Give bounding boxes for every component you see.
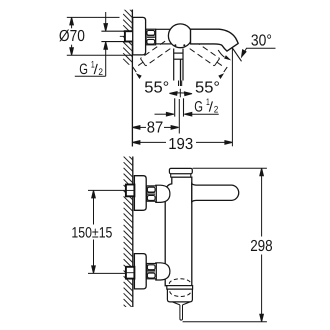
handle swing double arrow xyxy=(170,89,193,98)
top pipe centreline / 150 ext xyxy=(88,189,126,191)
top olive (union cone, upper) xyxy=(156,185,170,202)
G 1/2 pointer arrows (plan right) xyxy=(155,112,219,116)
dim Ø70 arrows xyxy=(70,17,74,55)
wall (side) xyxy=(132,157,134,308)
bottom outlet G1/2 lines (plan) xyxy=(175,98,184,116)
dashed internal arc (upper) xyxy=(169,279,191,284)
55° ray right end tick xyxy=(224,67,227,72)
55° ray left end tick xyxy=(133,67,136,72)
55° ray right mid tick xyxy=(214,59,219,66)
neck cylinder (plan) xyxy=(156,29,172,44)
svg-text:55°: 55° xyxy=(195,79,220,96)
dim 150±15 xyxy=(92,190,96,273)
dim 298 xyxy=(260,168,264,321)
dashed internal arc (lower) xyxy=(170,291,191,296)
inlet pipe centerline (plan) xyxy=(120,35,138,37)
top escutcheon (side) xyxy=(134,176,146,211)
bottom pipe in wall (side) xyxy=(126,267,134,279)
298 top extension line xyxy=(193,167,267,169)
svg-text:/: / xyxy=(94,61,98,77)
30° leader xyxy=(242,48,276,57)
svg-text:/: / xyxy=(209,99,213,115)
svg-text:30°: 30° xyxy=(251,32,272,49)
dim 193 xyxy=(132,141,232,145)
hex nut (plan) xyxy=(146,29,156,45)
inlet pipe in wall (plan) xyxy=(125,31,134,41)
G 1/2 label (upper-left) xyxy=(79,59,103,78)
svg-text:298: 298 xyxy=(250,238,273,255)
top hex nut (side) xyxy=(147,186,157,201)
lever stem (plan) xyxy=(180,59,182,86)
dim Ø70 extension lines xyxy=(67,16,120,18)
svg-text:G: G xyxy=(79,61,88,78)
outlet centre line xyxy=(178,99,180,134)
svg-text:150±15: 150±15 xyxy=(71,224,112,241)
55° swing ray left (dashed lever outline) xyxy=(135,41,170,67)
spout (plan) xyxy=(191,29,239,51)
lever screw dots (plan) xyxy=(174,44,176,46)
lever tube (side) xyxy=(192,184,239,202)
svg-text:87: 87 xyxy=(147,120,164,137)
top cap disc xyxy=(169,168,192,173)
top ring xyxy=(171,174,191,177)
outlet funnel xyxy=(172,302,190,305)
aerator collar xyxy=(167,286,193,290)
55° ray right arrowhead xyxy=(218,73,224,79)
30° tick at spout tip xyxy=(232,48,241,62)
wall hatching (side) xyxy=(124,151,133,314)
svg-text:G: G xyxy=(194,99,203,116)
G 1/2 label (plan right) xyxy=(194,97,218,116)
55° ray left mid tick xyxy=(140,59,145,66)
55° ray left arrowhead xyxy=(136,73,142,79)
water stream xyxy=(180,305,183,320)
spout tip extension line xyxy=(231,48,233,146)
wall flange / escutcheon (plan) xyxy=(133,17,146,55)
lever (plan) xyxy=(174,49,183,81)
faucet body circle (plan) xyxy=(168,24,192,48)
dim 87 xyxy=(132,126,178,130)
wall hatching (plan) xyxy=(123,3,132,68)
svg-text:Ø70: Ø70 xyxy=(59,28,85,45)
inlet pipe nipple edges (plan) xyxy=(101,30,125,32)
svg-text:193: 193 xyxy=(168,136,193,153)
top pipe in wall (side) xyxy=(126,185,134,197)
298 bottom extension line xyxy=(183,321,267,323)
bottom escutcheon (side) xyxy=(134,254,146,289)
55° swing ray right (dashed lever outline) xyxy=(190,41,225,67)
faucet body (side) xyxy=(165,177,192,286)
G 1/2 leader (upper-left) xyxy=(75,12,108,76)
aerator cup xyxy=(167,289,192,302)
bottom hex nut (side) xyxy=(147,264,157,279)
bottom olive (union cone, lower) xyxy=(156,263,170,280)
wall (plan) xyxy=(131,10,133,147)
svg-text:55°: 55° xyxy=(144,79,169,96)
bottom pipe centreline / 150 ext xyxy=(88,272,126,274)
spout swivel arc arrow xyxy=(218,50,224,57)
